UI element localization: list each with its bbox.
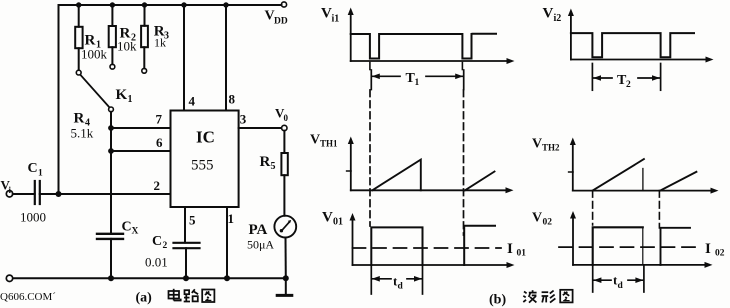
label VTH1	[310, 133, 338, 149]
capacitor C2	[174, 243, 200, 278]
arrowhead V02 y-axis	[570, 211, 576, 219]
svg-text:555: 555	[191, 158, 214, 174]
caption dianlutu 电路图 drawn strokes	[169, 289, 215, 302]
svg-text:V: V	[321, 6, 332, 22]
svg-text:V: V	[532, 137, 542, 152]
waveform V01 pulse2	[464, 226, 495, 265]
arrowhead VTH1 x-axis	[506, 187, 514, 193]
svg-text:V: V	[310, 133, 320, 148]
axis VTH1 horizontal	[351, 189, 507, 191]
svg-text:8: 8	[229, 92, 236, 107]
axis VTH1 vertical	[350, 142, 352, 190]
label V0 output	[275, 106, 289, 124]
axis Vi2 horizontal	[571, 59, 707, 61]
svg-text:R: R	[74, 111, 85, 127]
dimension T2 left arrow	[593, 77, 612, 79]
axis V02 vertical	[572, 217, 574, 265]
tick below axis T1 right	[461, 63, 463, 70]
wire top supply rail	[59, 4, 282, 6]
label R3 value	[154, 24, 169, 50]
terminal VDD open circle	[281, 2, 286, 7]
dashed timing line T1 left	[369, 90, 371, 226]
waveform Vi1 tail segment	[473, 33, 497, 35]
dashed timing line T1 right	[463, 90, 465, 235]
label C1 value	[20, 161, 46, 225]
dashed current level I02	[559, 246, 700, 248]
switch K1 blade	[80, 75, 109, 108]
svg-text:1: 1	[38, 169, 43, 179]
node junction dot R3 top	[142, 2, 147, 7]
arrowhead td2 left	[593, 277, 601, 283]
dimension T1 right arrow	[426, 75, 463, 77]
wire bottom ground rail	[13, 277, 286, 279]
arrowhead T2 right	[652, 75, 660, 81]
arrowhead Vi2 x-axis	[706, 57, 714, 63]
arrowhead T2 left	[593, 75, 601, 81]
svg-text:(b): (b)	[489, 293, 506, 308]
svg-text:V: V	[543, 5, 554, 21]
node junction dot pin6	[108, 148, 114, 154]
svg-text:IC: IC	[196, 128, 215, 147]
dimension td2 right bar	[643, 266, 645, 292]
arrowhead T1 left	[372, 74, 380, 80]
resistor R1	[75, 5, 82, 75]
svg-text:I: I	[507, 241, 513, 257]
dimension T1 left bar	[370, 70, 372, 90]
svg-text:5.1k: 5.1k	[71, 126, 94, 141]
node junction dot C2 ground	[183, 275, 189, 281]
label td1	[393, 274, 404, 292]
dimension T2 right bar	[660, 64, 662, 91]
terminal Vi open circle	[6, 191, 12, 197]
wire pin7	[111, 127, 171, 129]
dashed timing line td2 right upper	[658, 191, 660, 228]
svg-text:02: 02	[543, 218, 553, 228]
node junction dot pin4 rail	[181, 2, 186, 7]
arrowhead V01 x-axis	[507, 262, 515, 268]
axis VTH2 vertical	[572, 143, 574, 191]
node junction dot pin8 rail	[223, 2, 228, 7]
svg-text:1: 1	[415, 78, 420, 88]
svg-text:1: 1	[228, 211, 235, 226]
svg-text:2: 2	[154, 178, 161, 193]
wire Vi to C1	[13, 193, 35, 195]
arrowhead VTH2 x-axis	[711, 188, 719, 194]
svg-text:1: 1	[128, 94, 133, 105]
switch K1 pole contact	[109, 107, 114, 112]
svg-text:Q606.COM´: Q606.COM´	[0, 291, 56, 303]
label VTH2	[532, 137, 560, 153]
svg-text:6: 6	[156, 135, 163, 150]
wire pin4	[183, 5, 185, 111]
resistor R3	[141, 5, 148, 73]
node junction dot pin7	[108, 125, 114, 131]
svg-text:DD: DD	[274, 17, 288, 27]
axis VTH2 threshold tick	[569, 171, 573, 173]
svg-text:I: I	[705, 241, 711, 257]
node junction dot C1 rail	[56, 191, 62, 197]
node junction dot R2 top	[110, 2, 115, 7]
svg-text:i1: i1	[332, 14, 340, 25]
axis VTH1 threshold tick	[347, 170, 351, 172]
dimension T1 right bar	[463, 70, 465, 90]
axis Vi1 horizontal	[351, 60, 508, 62]
svg-text:V: V	[532, 211, 542, 226]
label Vi	[1, 178, 12, 196]
node junction dot pin1 ground	[224, 275, 230, 281]
arrowhead V02 x-axis	[705, 262, 713, 268]
svg-text:2: 2	[163, 241, 168, 251]
label I02	[705, 241, 725, 259]
axis VTH2 horizontal	[573, 190, 712, 192]
meter PA circle	[274, 216, 296, 238]
svg-text:V: V	[322, 210, 333, 226]
arrowhead Vi2 y-axis	[568, 9, 574, 17]
dashed current level I01	[353, 247, 502, 249]
axis V02 horizontal	[573, 264, 706, 266]
svg-text:50μA: 50μA	[247, 238, 274, 252]
dimension td1 left arrow	[372, 278, 391, 280]
label PA 50uA	[247, 222, 274, 252]
arrowhead td2 right	[635, 277, 643, 283]
node junction dot R1 top	[76, 2, 81, 7]
svg-text:i: i	[9, 185, 12, 195]
capacitor C1	[35, 181, 40, 204]
terminal V0 open circle	[282, 125, 287, 130]
waveform V02 pulse2	[661, 228, 691, 265]
wire pin8	[225, 5, 227, 111]
label CX	[122, 220, 139, 237]
label T1	[406, 71, 420, 88]
arrowhead Vi1 y-axis	[348, 8, 354, 16]
op-amp U1 IC 555 box	[171, 111, 239, 208]
arrowhead VTH2 y-axis	[570, 138, 576, 146]
terminal ground input open circle	[6, 275, 12, 281]
tick below axis T1 left	[369, 63, 371, 70]
svg-text:C: C	[122, 220, 132, 235]
svg-text:C: C	[152, 234, 162, 249]
waveform V02 pulse1	[593, 227, 643, 265]
svg-text:0: 0	[284, 113, 289, 123]
svg-text:01: 01	[333, 217, 343, 228]
label R1 value	[81, 33, 108, 62]
svg-text:C: C	[28, 161, 38, 176]
wire pin6	[111, 150, 171, 152]
label V02	[532, 211, 552, 228]
svg-text:TH1: TH1	[320, 139, 338, 149]
waveform VTH1 ramp2	[465, 172, 495, 191]
wire PA to ground rail	[285, 238, 287, 279]
svg-text:R: R	[260, 154, 271, 170]
waveform VTH2 ramp2	[660, 172, 696, 191]
dimension td2 left arrow	[593, 279, 611, 281]
arrowhead td1 right	[414, 276, 422, 282]
svg-text:5: 5	[189, 213, 196, 228]
dimension td1 right arrow	[407, 278, 422, 280]
waveform V02 pulse1 drop	[642, 227, 644, 265]
svg-text:02: 02	[715, 249, 725, 259]
label C2 value	[145, 234, 168, 270]
label K1	[116, 87, 133, 105]
resistor R2	[109, 5, 116, 69]
label td2	[613, 273, 624, 292]
waveform Vi2 pulses	[571, 33, 694, 57]
dashed timing line td2 left upper	[592, 191, 594, 225]
svg-text:100k: 100k	[81, 47, 108, 62]
svg-text:1k: 1k	[154, 36, 166, 50]
resistor R5	[281, 131, 287, 216]
svg-text:1000: 1000	[20, 210, 46, 225]
svg-text:d: d	[398, 282, 404, 292]
label T2	[617, 73, 631, 90]
dimension T2 right arrow	[638, 77, 660, 79]
arrowhead td1 left	[372, 276, 380, 282]
dimension T2 left bar	[591, 64, 593, 91]
arrowhead Vi1 x-axis	[507, 58, 515, 64]
svg-text:d: d	[618, 281, 624, 291]
svg-text:3: 3	[240, 112, 247, 127]
svg-text:PA: PA	[249, 222, 268, 238]
waveform VTH2 ramp1 drop	[642, 169, 644, 191]
label VDD	[265, 9, 288, 27]
dimension T1 left arrow	[372, 75, 400, 77]
svg-text:7: 7	[156, 112, 163, 127]
axis Vi2 vertical	[570, 14, 572, 60]
dimension td1 left bar	[370, 265, 372, 294]
wire pin1	[226, 207, 228, 278]
label Vi2	[543, 5, 562, 24]
waveform Vi1 pulses	[351, 34, 472, 59]
svg-text:01: 01	[517, 249, 527, 259]
meter PA needle	[280, 220, 292, 233]
svg-text:TH2: TH2	[542, 143, 560, 153]
svg-text:K: K	[116, 87, 128, 103]
wire K1 pole down	[110, 112, 112, 234]
svg-text:5: 5	[271, 161, 276, 172]
axis V01 horizontal	[353, 264, 509, 266]
svg-text:(a): (a)	[136, 291, 153, 306]
waveform VTH1 ramp1	[372, 160, 421, 191]
label IC 555	[191, 128, 215, 174]
label Vi1	[321, 6, 339, 25]
wire pin3	[239, 127, 282, 129]
wire pin5	[184, 207, 186, 243]
arrowhead V01 y-axis	[350, 213, 356, 221]
label I01	[507, 241, 526, 259]
dimension td1 right bar	[422, 265, 424, 294]
svg-text:10k: 10k	[117, 39, 137, 54]
axis Vi1 vertical	[350, 13, 352, 61]
wire pin2 from C1	[40, 193, 171, 195]
svg-text:i2: i2	[554, 13, 562, 24]
node junction dot PA ground	[283, 275, 289, 281]
label R5	[260, 154, 276, 172]
capacitor CX	[97, 234, 123, 278]
svg-text:0.01: 0.01	[145, 255, 168, 270]
waveform VTH2 ramp1	[593, 159, 644, 191]
svg-text:4: 4	[189, 94, 196, 109]
arrowhead T1 right	[455, 74, 463, 80]
label R2 value	[117, 26, 137, 54]
dimension td2 right arrow	[628, 279, 643, 281]
label V01	[322, 210, 343, 228]
ground symbol	[277, 278, 292, 295]
svg-text:X: X	[132, 227, 139, 237]
arrowhead VTH1 y-axis	[348, 137, 354, 145]
label R4 value	[71, 111, 94, 141]
caption boxingtu 波形图 drawn strokes	[523, 290, 572, 303]
axis V01 vertical	[352, 219, 354, 266]
dimension td2 left bar	[592, 265, 594, 292]
wire left vertical rail	[58, 5, 60, 194]
node junction dot CX ground	[108, 275, 114, 281]
svg-text:2: 2	[626, 80, 631, 90]
waveform V01 pulse1	[371, 227, 422, 265]
